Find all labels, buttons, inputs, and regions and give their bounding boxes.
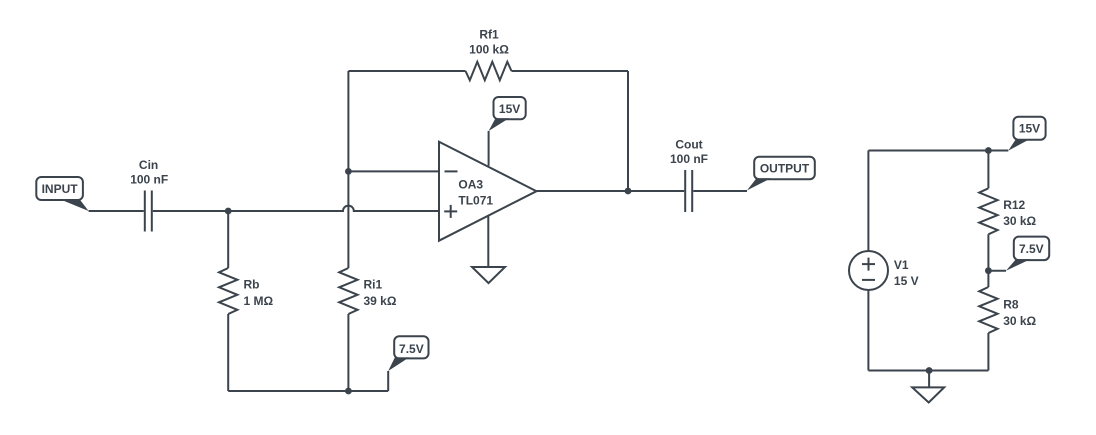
net flag 15V (divider) [1008, 117, 1045, 151]
junction minus node [345, 168, 352, 175]
wire right circuit bottom rail [868, 370, 988, 372]
wire node A to op-amp + input (with hop over Ri1 branch) [228, 206, 439, 211]
svg-text:1 MΩ: 1 MΩ [244, 294, 274, 308]
net flag 7.5V (divider) [1006, 237, 1049, 271]
wire input to Cin [89, 210, 144, 212]
wire 7.5V flag stub (divider) [988, 270, 1006, 272]
svg-text:INPUT: INPUT [42, 182, 79, 196]
net flag 7.5V (left circuit) [388, 336, 428, 371]
svg-text:OA3: OA3 [458, 178, 483, 192]
svg-text:15 V: 15 V [894, 274, 919, 288]
node A junction [225, 208, 232, 215]
wire op-amp V+ stub [488, 131, 490, 166]
wire top rail to R12 [987, 151, 989, 189]
voltage source V1 [849, 251, 888, 290]
junction output node [625, 188, 632, 195]
svg-text:30 kΩ: 30 kΩ [1003, 214, 1036, 228]
svg-text:Ri1: Ri1 [364, 278, 383, 292]
ground (divider) [912, 387, 944, 402]
svg-text:Cin: Cin [139, 158, 158, 172]
svg-text:100 kΩ: 100 kΩ [469, 42, 509, 56]
resistor R12 [979, 188, 997, 234]
wire inverting node vertical (Rf1 left to minus wire) [347, 71, 349, 171]
wire 7.5V stub (left circuit) [387, 371, 389, 391]
wire left vertical top (rail to V1) [867, 151, 869, 252]
svg-text:R8: R8 [1003, 298, 1019, 312]
resistor Rb [219, 268, 237, 314]
wire op-amp ground stub [487, 216, 489, 267]
net flag OUTPUT [747, 157, 815, 191]
svg-text:15V: 15V [499, 102, 520, 116]
wire feedback right vertical [627, 71, 629, 191]
svg-text:OUTPUT: OUTPUT [760, 162, 810, 176]
svg-text:Rf1: Rf1 [479, 28, 499, 42]
wire Cin to node A [153, 210, 229, 212]
wire Rf1 right [512, 70, 629, 72]
wire R12 to 7.5V node [987, 234, 989, 270]
wire left vertical bottom (V1 to rail) [867, 290, 869, 371]
svg-text:100 nF: 100 nF [130, 172, 168, 186]
svg-text:100 nF: 100 nF [670, 152, 708, 166]
net flag INPUT [36, 177, 88, 211]
wire op-amp output [537, 190, 685, 192]
net flag 15V (op-amp supply) [489, 97, 526, 131]
capacitor Cout [685, 170, 692, 212]
capacitor Cin [145, 191, 152, 232]
wire node A down to Rb [227, 211, 229, 268]
wire Rf1 left [348, 70, 465, 72]
svg-text:R12: R12 [1003, 198, 1025, 212]
wire minus node to op-amp - input [348, 170, 439, 172]
wire right circuit top rail [868, 150, 988, 152]
wire R8 to bottom rail [987, 333, 989, 371]
wire Cout to OUTPUT [693, 190, 747, 192]
svg-text:Cout: Cout [675, 138, 702, 152]
junction 15V node [985, 147, 992, 154]
junction Ri1 bottom [345, 388, 352, 395]
resistor Rf1 [466, 62, 512, 80]
svg-text:V1: V1 [894, 258, 909, 272]
wire Rb to bottom rail [227, 314, 229, 391]
svg-text:TL071: TL071 [458, 193, 493, 207]
wire 7.5V node to R8 [987, 271, 989, 287]
wire 15V flag stub [988, 150, 1008, 152]
junction 7.5V node [985, 267, 992, 274]
wire inverting node vertical (minus wire down to Ri1) [347, 171, 349, 268]
svg-text:39 kΩ: 39 kΩ [364, 294, 397, 308]
wire Ri1 bottom lead [347, 314, 349, 391]
svg-text:15V: 15V [1019, 122, 1040, 136]
wire bottom rail [228, 390, 388, 392]
resistor Ri1 [339, 268, 357, 314]
ground (op-amp) [472, 267, 505, 283]
svg-text:7.5V: 7.5V [399, 342, 424, 356]
svg-text:30 kΩ: 30 kΩ [1003, 314, 1036, 328]
svg-text:Rb: Rb [244, 278, 260, 292]
resistor R8 [979, 287, 997, 333]
svg-text:7.5V: 7.5V [1019, 242, 1044, 256]
junction ground node [926, 367, 933, 374]
op-amp OA3 [439, 142, 537, 241]
wire ground stub (divider) [928, 371, 930, 387]
